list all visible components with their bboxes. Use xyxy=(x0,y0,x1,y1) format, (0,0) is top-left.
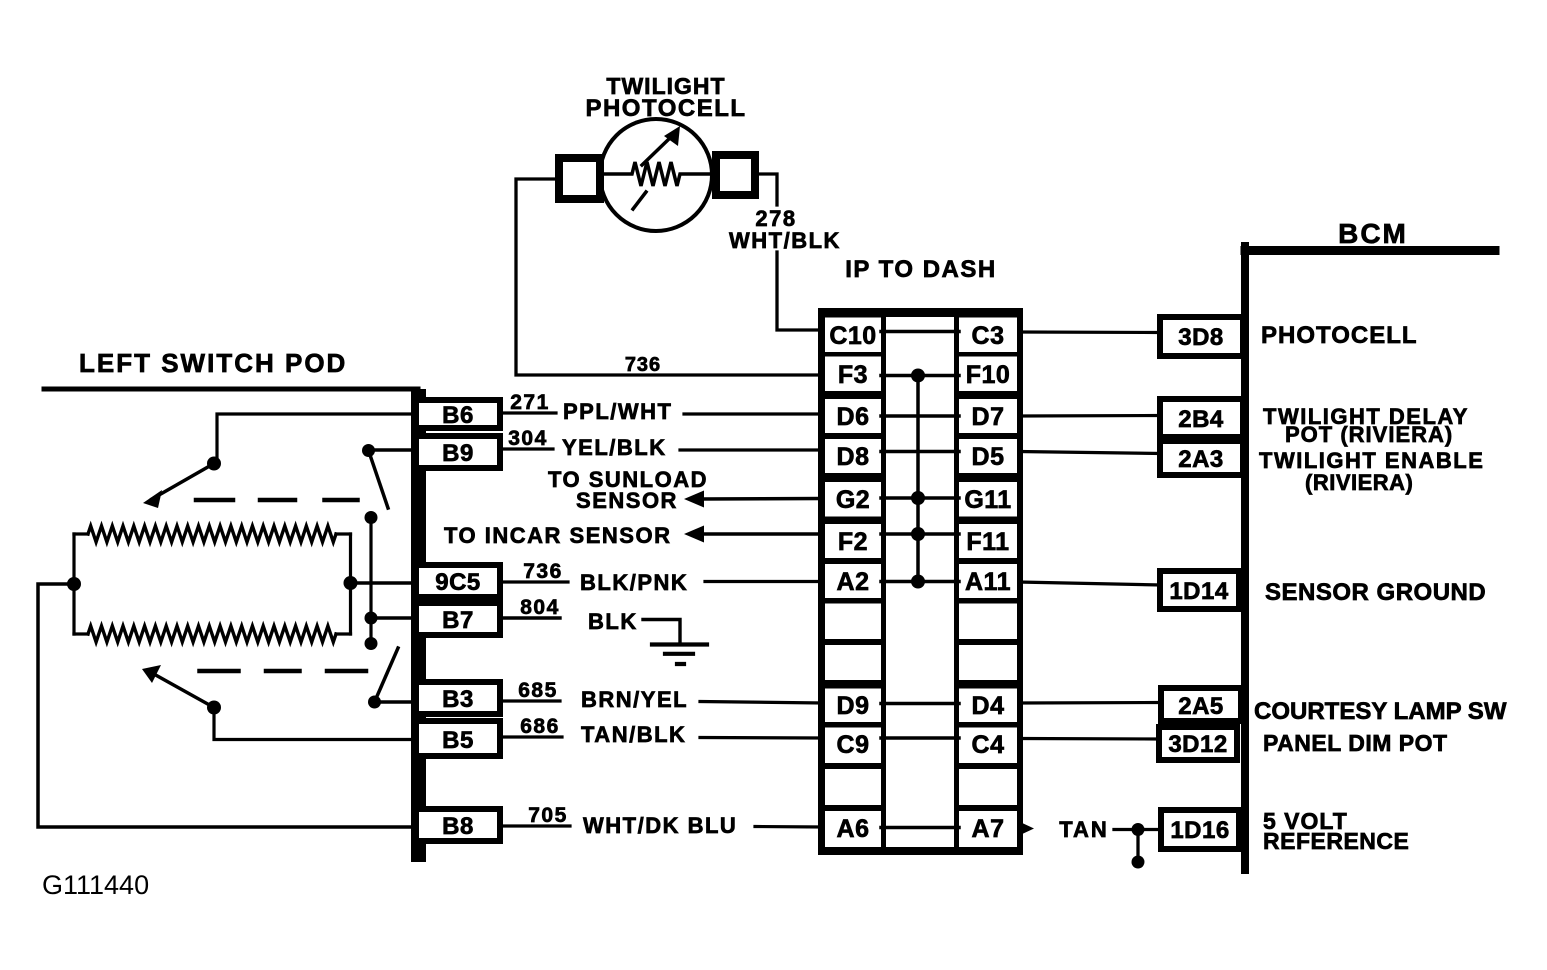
svg-text:TAN: TAN xyxy=(1059,817,1109,842)
svg-text:304: 304 xyxy=(508,427,548,450)
wire D9 to D4 xyxy=(881,702,959,706)
wire B7 circuit 804 BLK to ground xyxy=(500,618,680,642)
svg-text:C3: C3 xyxy=(972,322,1005,350)
pot left vertical xyxy=(72,534,75,634)
wiper bus vertical xyxy=(369,518,372,644)
svg-text:3D8: 3D8 xyxy=(1178,324,1224,351)
svg-text:736: 736 xyxy=(625,354,661,376)
svg-text:F3: F3 xyxy=(838,361,868,389)
node junction G2/G11 xyxy=(911,491,925,505)
wire B3 to D9 circuit 685 BRN/YEL xyxy=(500,701,822,703)
svg-text:F11: F11 xyxy=(966,528,1009,556)
wire TAN to 1D16 xyxy=(1114,828,1161,831)
switch S2 (B3) xyxy=(368,696,381,709)
wire 9C5 to A2 circuit 736 BLK/PNK xyxy=(500,580,822,584)
left pod pin box B7 xyxy=(416,603,500,635)
svg-text:POT (RIVIERA): POT (RIVIERA) xyxy=(1285,422,1453,447)
svg-text:1D14: 1D14 xyxy=(1169,578,1229,605)
BCM pin box 3D8 xyxy=(1160,317,1243,356)
node junction F2/F11 xyxy=(911,527,925,541)
photocell right terminal xyxy=(716,155,755,195)
svg-text:736: 736 xyxy=(523,560,563,583)
BCM pin box 1D16 xyxy=(1161,810,1239,849)
svg-text:C10: C10 xyxy=(829,322,876,350)
svg-text:SENSOR: SENSOR xyxy=(576,488,678,513)
wire D6 to D7 xyxy=(881,414,959,418)
svg-text:D7: D7 xyxy=(972,403,1005,431)
node left pot junction xyxy=(67,577,81,591)
svg-text:PPL/WHT: PPL/WHT xyxy=(563,399,673,424)
photocell body circle xyxy=(600,119,712,231)
svg-text:G111440: G111440 xyxy=(42,870,149,900)
svg-text:B8: B8 xyxy=(442,813,474,840)
svg-text:A7: A7 xyxy=(972,815,1005,843)
svg-text:G2: G2 xyxy=(836,486,870,514)
wire C3 to 3D8 xyxy=(1019,330,1160,334)
wire channel vertical bus (736 net) xyxy=(916,376,920,582)
left pod pin box B5 xyxy=(416,721,500,756)
left pod pin box B8 xyxy=(416,809,500,841)
photocell U1 label xyxy=(585,73,746,122)
node junction A2/A11 xyxy=(911,575,925,589)
BCM vertical line xyxy=(1241,246,1249,870)
svg-text:B6: B6 xyxy=(442,402,474,429)
wire D4 to 2A5 xyxy=(1019,701,1161,705)
node junction F3/F10 xyxy=(911,369,925,383)
connector cells left column xyxy=(825,318,881,848)
svg-text:2B4: 2B4 xyxy=(1178,406,1224,433)
left pod pin box B6 xyxy=(416,400,500,428)
svg-text:685: 685 xyxy=(518,679,558,702)
svg-text:YEL/BLK: YEL/BLK xyxy=(562,435,667,460)
splice drop wire xyxy=(1136,830,1139,862)
wire A2 to A11 xyxy=(881,580,959,584)
svg-text:1D16: 1D16 xyxy=(1170,817,1229,844)
svg-text:IP TO DASH: IP TO DASH xyxy=(845,256,996,283)
BCM pin box 2A5 xyxy=(1161,688,1241,721)
svg-text:C9: C9 xyxy=(837,731,870,759)
left pod top line xyxy=(44,387,418,392)
svg-text:PHOTOCELL: PHOTOCELL xyxy=(1261,322,1418,349)
potentiometer R1 track (upper) xyxy=(74,532,88,535)
svg-text:D8: D8 xyxy=(837,443,870,471)
ground symbol xyxy=(652,645,707,665)
svg-text:F2: F2 xyxy=(838,528,868,556)
svg-text:TAN/BLK: TAN/BLK xyxy=(581,722,686,747)
BCM pin box 1D14 xyxy=(1160,571,1239,609)
svg-text:WHT/BLK: WHT/BLK xyxy=(729,228,841,253)
label 278 WHT/BLK xyxy=(729,206,841,253)
svg-text:D9: D9 xyxy=(837,692,870,720)
svg-text:9C5: 9C5 xyxy=(435,569,481,596)
potentiometer R2 track (lower) xyxy=(74,632,88,635)
wire A6 to A7 xyxy=(881,826,959,830)
dashed link upper xyxy=(196,498,358,503)
wire G2 to G11 xyxy=(881,496,959,500)
A7 out arrow xyxy=(1019,822,1034,836)
svg-text:WHT/DK BLU: WHT/DK BLU xyxy=(583,813,737,838)
pot right vertical xyxy=(349,534,352,634)
wire photocell right to C10 (circuit 278) xyxy=(755,174,822,330)
wire B9 to D8 circuit 304 YEL/BLK xyxy=(500,449,822,450)
left pod pin box 9C5 xyxy=(416,565,500,597)
dashed link lower xyxy=(200,669,367,674)
switch arm B5 xyxy=(214,708,411,740)
svg-text:705: 705 xyxy=(528,804,568,827)
svg-text:686: 686 xyxy=(520,715,560,738)
wire C4 to 3D12 xyxy=(1019,737,1159,741)
svg-text:3D12: 3D12 xyxy=(1168,731,1227,758)
left pod pin box B3 xyxy=(416,682,500,714)
BCM pin box 2A3 xyxy=(1160,441,1243,475)
wire D8 to D5 xyxy=(881,450,959,454)
svg-text:D5: D5 xyxy=(972,443,1005,471)
svg-text:D4: D4 xyxy=(972,692,1005,720)
wire wiper to B7 xyxy=(371,616,411,620)
svg-text:BLK/PNK: BLK/PNK xyxy=(580,570,688,595)
wire pot right to 9C5 xyxy=(351,581,412,585)
svg-text:B9: B9 xyxy=(442,440,474,467)
photocell left terminal xyxy=(559,158,600,199)
svg-text:BCM: BCM xyxy=(1338,218,1408,249)
svg-text:SENSOR GROUND: SENSOR GROUND xyxy=(1265,579,1486,606)
wire B5 to C9 circuit 686 TAN/BLK xyxy=(500,737,822,738)
photocell internal resistor xyxy=(603,162,713,186)
wire pot left to B8 row xyxy=(38,584,411,827)
svg-text:2A3: 2A3 xyxy=(1178,446,1224,473)
svg-text:COURTESY LAMP SW: COURTESY LAMP SW xyxy=(1254,698,1507,725)
svg-text:C4: C4 xyxy=(972,731,1005,759)
wire B6 to D6 circuit 271 PPL/WHT xyxy=(500,413,822,414)
switch S1 (B9) xyxy=(362,444,375,457)
svg-text:B3: B3 xyxy=(442,686,474,713)
wire photocell left to F3 (circuit 736) xyxy=(516,179,822,375)
wire A11 to 1D14 xyxy=(1019,582,1160,585)
svg-text:2A5: 2A5 xyxy=(1178,693,1224,720)
connector cells right column xyxy=(959,318,1017,848)
wire B8 to A6 circuit 705 WHT/DK BLU xyxy=(500,826,822,827)
svg-text:REFERENCE: REFERENCE xyxy=(1263,828,1409,854)
switch arm B6 xyxy=(217,414,411,464)
svg-text:BLK: BLK xyxy=(588,609,638,634)
svg-text:D6: D6 xyxy=(837,403,870,431)
left pod connector bar xyxy=(411,389,426,862)
wire D5 to 2A3 xyxy=(1019,452,1160,454)
svg-text:271: 271 xyxy=(510,391,550,414)
left pod pin box B9 xyxy=(416,436,500,468)
BCM pin box 3D12 xyxy=(1159,727,1237,760)
svg-text:BRN/YEL: BRN/YEL xyxy=(581,687,688,712)
photocell arrow xyxy=(633,138,670,209)
svg-text:F10: F10 xyxy=(966,361,1011,389)
BCM pin box 2B4 xyxy=(1160,399,1243,437)
svg-text:B7: B7 xyxy=(442,607,474,634)
BCM top bar xyxy=(1245,246,1495,255)
svg-text:TO INCAR SENSOR: TO INCAR SENSOR xyxy=(444,523,671,548)
svg-text:LEFT SWITCH POD: LEFT SWITCH POD xyxy=(79,348,347,378)
svg-text:(RIVIERA): (RIVIERA) xyxy=(1305,470,1413,495)
wire D7 to 2B4 xyxy=(1019,414,1160,418)
svg-text:G11: G11 xyxy=(964,486,1011,514)
wire F3 to F10 xyxy=(881,374,959,378)
svg-text:A2: A2 xyxy=(837,568,870,596)
svg-text:PANEL DIM POT: PANEL DIM POT xyxy=(1263,730,1448,756)
svg-text:A6: A6 xyxy=(837,815,870,843)
connector body (IP to dash) xyxy=(818,308,1023,855)
node right pot junction xyxy=(344,576,358,590)
wire C9 to C4 xyxy=(881,736,959,740)
wire G2 to sunload sensor xyxy=(548,467,708,513)
wire C10 to C3 xyxy=(881,330,959,334)
svg-text:804: 804 xyxy=(520,596,560,619)
junction TAN splice xyxy=(1132,823,1145,836)
svg-text:A11: A11 xyxy=(965,568,1011,596)
svg-text:B5: B5 xyxy=(442,727,474,754)
wire F2 to F11 xyxy=(881,532,959,536)
